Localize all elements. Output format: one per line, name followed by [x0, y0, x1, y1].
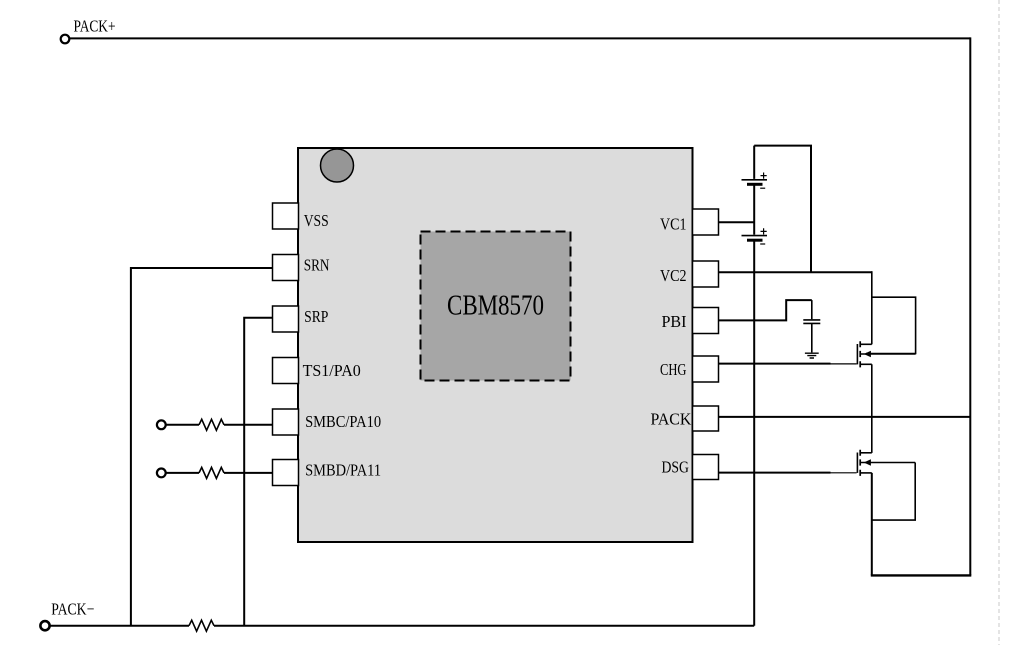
wire DSG gate lead (thin part) [831, 472, 857, 474]
svg-text:TS1/PA0: TS1/PA0 [303, 361, 361, 380]
pin box DSG [693, 455, 719, 480]
wire battery bottom lead down to PACK- rail [753, 241, 755, 626]
terminal PACK+ [61, 35, 70, 44]
wire bottom right rail (Q2 source to PACK+ vertical) [871, 574, 972, 576]
terminal SMBD input [157, 469, 166, 478]
wire battery middle lead (BT1- to BT2+) [753, 185, 755, 234]
wire battery column top lead [753, 146, 755, 179]
battery BT2 plus mark [761, 228, 767, 234]
wire Q1 body loop upper [866, 297, 916, 353]
svg-text:CHG: CHG [660, 360, 687, 379]
pin box PACK [693, 406, 719, 431]
transistor Q2 source lead [860, 472, 872, 474]
wire SRN to left vertical [131, 268, 273, 626]
capacitor C1 plates [803, 320, 820, 324]
transistor Q1 body arrow [864, 351, 871, 358]
transistor Q1 drain lead [860, 343, 872, 345]
wire CHG gate lead (thin part) [831, 363, 857, 365]
svg-text:PBI: PBI [662, 312, 687, 331]
IC U1 body CBM8570 [298, 148, 693, 542]
pin box PBI [693, 308, 719, 334]
svg-text:VC2: VC2 [660, 266, 687, 285]
capacitor C1 bottom lead [811, 324, 813, 352]
svg-text:CBM8570: CBM8570 [447, 290, 544, 321]
svg-text:VSS: VSS [304, 211, 329, 230]
transistor Q1 source lead [860, 363, 872, 365]
wire PBI jog [719, 300, 812, 320]
svg-text:DSG: DSG [662, 458, 689, 477]
battery BT1 negative plate [747, 183, 763, 186]
pin box VC2 [693, 261, 719, 287]
wire right edge vertical (PACK+ down) [969, 37, 971, 575]
wire SRP to vertical [244, 318, 272, 626]
wire VC2 to Q1 drain corner [719, 271, 872, 273]
wire top loop (BT1+ to VC2 net) [754, 146, 811, 273]
transistor Q1 gate bar [856, 344, 858, 364]
svg-text:PACK: PACK [651, 410, 692, 429]
svg-text:PACK−: PACK− [51, 600, 94, 619]
battery BT2 minus mark [760, 243, 765, 245]
pin box SRP [273, 306, 299, 332]
capacitor C1 top lead [811, 300, 813, 319]
ground symbol GND [805, 353, 819, 358]
transistor Q1 channel stubs [859, 341, 861, 367]
pin box CHG [693, 356, 719, 382]
svg-text:SRP: SRP [304, 307, 328, 326]
wire DSG to Q2 gate (thick part) [719, 472, 831, 474]
pin box TS1/PA0 [273, 358, 299, 384]
IC U1 inner dashed die box [421, 232, 571, 381]
pin box SRN [273, 255, 299, 281]
transistor Q2 drain lead [860, 452, 872, 454]
transistor Q2 channel stubs [859, 450, 861, 476]
wire PACK- rail left of resistor [50, 625, 189, 627]
battery BT1 positive plate [742, 179, 768, 181]
wire Q2 source down [871, 473, 873, 576]
svg-text:SMBD/PA11: SMBD/PA11 [305, 460, 381, 479]
svg-text:SMBC/PA10: SMBC/PA10 [305, 412, 381, 431]
resistor R2 (SMBD pull) [199, 467, 224, 478]
page border dashed (decorative page break) [998, 0, 1000, 645]
resistor R3 (sense, bottom rail) [189, 620, 214, 631]
resistor R1 (SMBC pull) [199, 419, 224, 430]
transistor Q2 body arrow [864, 459, 871, 466]
pin box VSS [273, 203, 299, 229]
terminal SMBC input [157, 420, 166, 429]
wire PACK to right edge [719, 416, 971, 418]
wire SMBC left segment [166, 424, 199, 426]
terminal PACK- [40, 621, 49, 630]
transistor Q2 gate bar [856, 453, 858, 473]
wire SMBC right segment to pin [224, 424, 273, 426]
wire Q1 source to Q2 drain [871, 364, 873, 453]
wire CHG to Q1 gate (thick part) [719, 363, 831, 365]
pin box SMBD/PA11 [273, 460, 299, 486]
battery BT2 positive plate [742, 235, 768, 237]
transistor Q1 body lead [860, 353, 915, 355]
wire Q1 drain vertical [871, 271, 873, 344]
svg-text:SRN: SRN [304, 255, 330, 274]
IC U1 pin-1 dot [321, 149, 354, 182]
svg-text:PACK+: PACK+ [74, 17, 116, 36]
pin box SMBC/PA10 [273, 409, 299, 435]
battery BT1 minus mark [760, 187, 765, 189]
wire PACK+ top rail [70, 37, 971, 39]
battery BT1 plus mark [761, 173, 767, 179]
pin box VC1 [693, 209, 719, 235]
battery BT2 negative plate [747, 239, 763, 242]
transistor Q2 body lead [860, 462, 915, 464]
wire VC1 to battery stack [719, 221, 755, 223]
wire PACK- rail right of resistor [214, 625, 754, 627]
svg-text:VC1: VC1 [660, 214, 687, 233]
wire SMBD right segment to pin [224, 472, 273, 474]
wire SMBD left segment [166, 472, 199, 474]
wire Q2 body loop lower [872, 463, 915, 521]
